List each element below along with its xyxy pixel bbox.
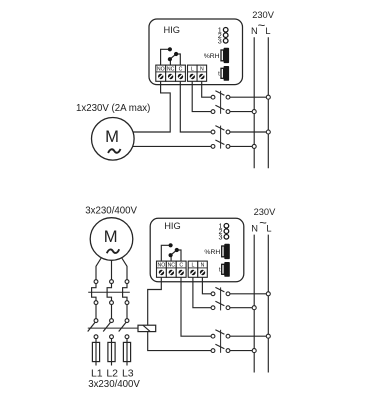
svg-text:NO: NO <box>158 263 166 269</box>
svg-text:~: ~ <box>258 18 266 33</box>
svg-text:C: C <box>179 263 183 269</box>
svg-text:L: L <box>266 223 271 233</box>
svg-text:M: M <box>105 127 119 146</box>
svg-text:HIG: HIG <box>164 221 181 231</box>
svg-text:NC: NC <box>167 67 175 73</box>
svg-text:1x230V (2A max): 1x230V (2A max) <box>76 103 150 114</box>
svg-text:L2: L2 <box>106 367 118 379</box>
svg-text:L3: L3 <box>122 367 134 379</box>
svg-text:~: ~ <box>259 215 267 230</box>
svg-text:3: 3 <box>219 232 223 241</box>
svg-text:L: L <box>265 26 270 36</box>
svg-text:3: 3 <box>218 36 222 45</box>
svg-text:3x230/400V: 3x230/400V <box>88 379 140 390</box>
svg-text:%RH: %RH <box>204 249 220 256</box>
svg-text:N: N <box>200 67 204 73</box>
svg-text:C: C <box>179 67 183 73</box>
svg-text:N: N <box>251 223 258 233</box>
svg-text:HIG: HIG <box>164 25 181 35</box>
svg-text:L: L <box>192 263 195 269</box>
svg-text:L1: L1 <box>91 367 103 379</box>
svg-text:M: M <box>104 227 118 246</box>
svg-text:NO: NO <box>157 67 165 73</box>
svg-text:NC: NC <box>168 263 176 269</box>
svg-text:N: N <box>201 263 205 269</box>
svg-text:L: L <box>191 67 194 73</box>
svg-text:%RH: %RH <box>204 53 220 60</box>
svg-text:3x230/400V: 3x230/400V <box>85 206 137 217</box>
